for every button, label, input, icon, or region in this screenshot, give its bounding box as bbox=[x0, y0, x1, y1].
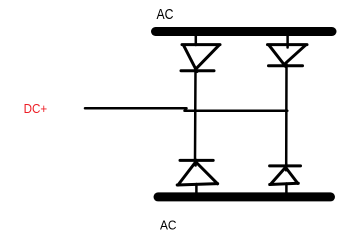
svg-text:DC+: DC+ bbox=[24, 102, 48, 116]
svg-text:AC: AC bbox=[160, 218, 177, 233]
svg-text:AC: AC bbox=[157, 7, 174, 23]
